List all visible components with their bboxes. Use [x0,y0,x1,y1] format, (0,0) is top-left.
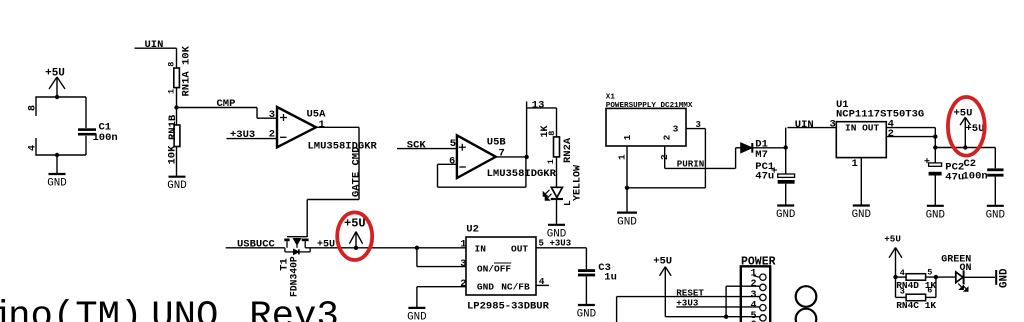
svg-text:+5U: +5U [317,239,335,250]
ground below RN1B [169,176,186,178]
pin number 2 of U1 and wire [886,128,935,140]
ground below PC2 [927,205,944,207]
wire SCK to U5B pin 5 [397,148,457,150]
red annotation ellipse left [337,212,372,260]
svg-text:1: 1 [750,269,756,280]
wire RN1A to CMP junction [176,88,178,108]
wire top rail of U5 power block [36,96,86,98]
wire USBVCC to T1 [226,247,285,249]
svg-text:no(TM): no(TM) [8,296,142,322]
svg-text:UIN: UIN [145,39,164,51]
svg-text:GND: GND [477,282,494,293]
svg-text:+3U3: +3U3 [550,238,572,248]
svg-text:4: 4 [750,301,756,312]
resistor RN4C [906,294,926,301]
svg-text:FDN340P: FDN340P [289,256,300,297]
svg-text:2: 2 [269,129,275,141]
svg-text:5: 5 [539,238,544,248]
wire +3V3 to U5A pin 2 [227,138,278,140]
junction dot +5V rail left [933,145,937,149]
junction dot U1 pin2/pin4 [933,134,937,138]
+5V supply symbol (circled, left) [344,217,366,248]
LED green emission arrows [958,284,968,292]
svg-text:+3U3: +3U3 [230,129,255,141]
svg-text:2: 2 [750,279,756,290]
svg-text:GATE_CMD: GATE_CMD [351,147,363,197]
svg-text:13: 13 [532,99,545,111]
svg-text:5: 5 [927,268,932,278]
junction dot at VIN/D1/PC1 [784,145,788,149]
svg-text:CMP: CMP [217,98,236,110]
svg-text:U2: U2 [466,224,479,236]
wire LED cathode to ground [556,199,558,225]
ground below yellow LED [548,224,565,226]
svg-text:3: 3 [830,119,836,131]
svg-text:4: 4 [28,145,39,151]
red annotation ellipse right [948,97,985,156]
wires around RN4D/RN4C [896,277,956,297]
svg-text:3: 3 [750,290,756,301]
node CMP junction dot [174,105,178,109]
svg-text:UIN: UIN [795,119,814,131]
ground below U1 [853,204,870,206]
svg-text:ON/OFF: ON/OFF [477,263,512,274]
svg-text:1: 1 [546,159,556,164]
transistor T1 p-mosfet FDN340P [284,236,310,254]
resistor RN4D [906,274,926,281]
wire VIN to RN1A [135,48,177,68]
capacitor C1 [78,97,96,155]
+5V supply symbol at RN4 [884,233,902,277]
wire +3V3 to power header pin 4 [676,306,760,308]
svg-text:C2: C2 [964,158,977,170]
svg-text:NC/FB: NC/FB [501,282,530,293]
svg-text:10K: 10K [167,145,179,165]
svg-text:GND: GND [47,178,66,190]
svg-text:+5U: +5U [344,217,366,231]
svg-text:1: 1 [852,158,858,170]
svg-text:1K: 1K [540,125,551,137]
wire to U2 pin 3 [417,248,466,267]
regulator U1 body [836,122,886,158]
svg-text:GND: GND [852,209,871,221]
pin number 2 of X1 and PWRIN wire [659,146,741,168]
svg-text:1: 1 [167,89,177,94]
svg-text:+5U: +5U [653,255,672,267]
svg-text:M7: M7 [755,149,768,161]
junction dot right of RN4D [934,275,938,279]
junction dot X1 ground [625,186,629,190]
svg-text:GND: GND [577,309,596,321]
svg-text:LP2985-33DBUR: LP2985-33DBUR [467,300,550,312]
svg-text:GND: GND [998,268,1010,288]
wire +5V to power header pins 5 and 2 [665,286,760,317]
wire U2 pin 2 to ground [417,287,466,308]
svg-text:2: 2 [460,278,466,290]
svg-text:GND: GND [617,217,637,229]
ground below U2 pin 2 [408,307,425,309]
capacitor C3 [578,269,595,305]
mounting hole circle lower [796,309,817,322]
svg-text:2: 2 [888,128,894,140]
wire U5B output up to net 13 [527,102,557,157]
svg-text:LMU358IDGKR: LMU358IDGKR [308,141,378,153]
junction dot at U2 pins 1/3 [415,246,419,250]
svg-text:L: L [562,200,573,206]
svg-text:4: 4 [900,268,905,278]
svg-text:RN2A: RN2A [562,137,574,163]
svg-text:47u: 47u [755,171,774,183]
svg-text:+5U: +5U [966,123,985,135]
diode D1 [741,143,786,153]
pin number 1 of U1 and ground wire [852,158,862,206]
capacitor PC2 polarized [925,148,942,206]
+5V supply symbol (circled) [954,108,973,148]
svg-text:8: 8 [167,62,177,67]
svg-text:IN: IN [475,244,487,255]
ground below PC1 [777,204,794,206]
svg-text:SCK: SCK [407,140,427,152]
LED emission arrows [543,190,551,200]
connector X1 body [606,108,686,146]
svg-text:+5U: +5U [954,108,973,120]
svg-text:YELLOW: YELLOW [573,165,584,201]
wire RN2A to yellow LED [556,157,558,187]
svg-text:6: 6 [927,286,932,296]
op-amp U5B [457,135,496,178]
ground below X1 [617,212,637,214]
resistor RN2A [554,137,560,157]
regulator U2 body [466,237,536,295]
big title text Arduino(TM) UNO Rev3 (cropped) [0,296,339,322]
pin number 4 of U2 and stub [536,276,549,287]
svg-text:RN1B: RN1B [167,114,179,140]
junction dot at +5V rail [55,95,59,99]
ground below C2 [987,205,1004,207]
svg-text:GND: GND [167,180,186,192]
svg-text:1u: 1u [604,272,617,284]
wire +5V rail from T1 to U2 [305,247,466,249]
svg-text:1: 1 [460,238,466,250]
svg-text:1: 1 [617,154,628,160]
mounting hole circle upper [796,286,817,307]
svg-text:LMU358IDGKR: LMU358IDGKR [487,168,557,180]
svg-text:+3U3: +3U3 [676,298,699,309]
svg-text:OUT: OUT [511,244,528,255]
svg-text:IN OUT: IN OUT [845,122,880,133]
svg-text:3: 3 [673,123,679,134]
wire U5B feedback pin 6 to output [438,157,526,187]
svg-text:GND: GND [776,209,795,221]
svg-text:1: 1 [622,134,633,140]
junction dot +5V at T1 [354,246,358,250]
svg-text:+5U: +5U [884,233,901,244]
junction dot at U5B output [524,155,528,159]
pin 1 of POWER [750,269,766,281]
svg-text:RN4C 1K: RN4C 1K [896,300,936,311]
pin 3 of POWER [750,290,766,301]
ground below C3 [578,304,595,306]
svg-text:NCP1117ST50T3G: NCP1117ST50T3G [836,109,924,121]
svg-text:47u: 47u [945,171,964,183]
wire U5B output [496,156,527,158]
svg-text:GND: GND [407,311,426,322]
svg-text:1: 1 [319,119,325,131]
svg-text:3: 3 [900,286,905,296]
junction dot bottom rail [55,153,59,157]
svg-text:+5U: +5U [45,68,65,80]
capacitor PC1 polarized [772,167,795,205]
junction dot +5V power header [724,315,728,319]
pin 6 of POWER (clipped) [750,320,766,322]
pin 4 stub of U5 power block [28,138,39,156]
svg-text:3: 3 [460,258,466,270]
pin 8 stub of U5 power block [28,96,39,116]
wire U5A output to T1 gate (GATE_CMD net) [307,127,359,237]
wire U2 out to C3 [536,248,586,269]
wire VIN to U1 pin 3 [787,127,836,129]
pin 5 of POWER [750,311,766,322]
svg-text:PURIN: PURIN [677,159,705,170]
svg-text:GND: GND [986,209,1005,221]
capacitor C2 [987,148,1003,206]
svg-text:8: 8 [28,105,39,111]
wire RESET net [617,297,760,322]
svg-text:100n: 100n [963,171,988,183]
left power-pin block: +5V supply symbol [45,68,65,98]
ground rotated at right edge [996,268,1010,288]
svg-text:X1: X1 [606,93,616,101]
svg-text:100n: 100n [93,132,118,144]
ground GND below C1 block [47,155,66,190]
svg-text:5: 5 [450,138,456,150]
pin 2 of POWER [750,279,766,290]
svg-text:GND: GND [926,209,945,221]
wire +5V rail right of U1 [935,147,995,149]
svg-text:6: 6 [449,156,455,168]
LED ON green [956,270,995,284]
pin name ON/OFF inside U2 with overline [477,263,512,274]
junction dot +5V RN4 [893,275,897,279]
op-amp U5A [277,107,316,147]
svg-text:RN1A 10K: RN1A 10K [180,45,192,96]
pin number 4 of U1 and wire [886,118,935,147]
+5V supply symbol at power header [653,255,672,316]
resistor RN1B [174,108,180,177]
resistor RN1A [174,68,180,88]
svg-text:ON: ON [960,263,972,274]
wire bottom rail of U5 power block [36,154,86,156]
svg-text:2: 2 [662,134,673,140]
svg-text:Rev3: Rev3 [249,296,339,322]
pin number 3 of X1 and wire to bottom rail [627,120,705,188]
pin number 1 of X1 and wire to ground [617,146,628,213]
junction dot +5V symbol [963,145,967,149]
wire CMP to U5A pin 3 [177,108,278,119]
svg-text:3: 3 [269,109,275,121]
pin 4 of POWER [750,301,766,312]
wire VIN node [785,128,787,174]
connector POWER header body [741,266,770,322]
svg-text:UNO: UNO [151,296,218,322]
LED L yellow [551,187,563,199]
